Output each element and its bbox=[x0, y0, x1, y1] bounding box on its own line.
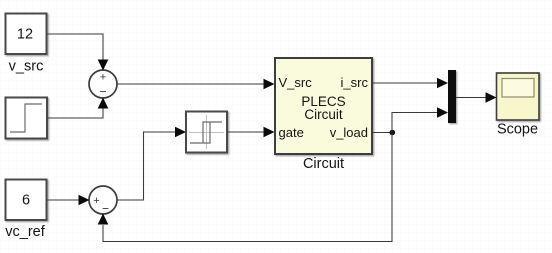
arrow into gate bbox=[264, 127, 275, 138]
svg-text:gate: gate bbox=[279, 125, 304, 140]
svg-text:v_src: v_src bbox=[9, 59, 44, 75]
svg-text:−: − bbox=[102, 202, 109, 216]
mux M1 bbox=[448, 70, 456, 123]
wire i_src to mux bbox=[372, 82, 437, 84]
sum block S2 bbox=[89, 186, 117, 216]
wire 6 to S2 bbox=[48, 199, 80, 201]
arrow into S1 bottom bbox=[98, 98, 109, 109]
wire relay to gate bbox=[227, 131, 264, 133]
arrow into mux input 1 bbox=[437, 78, 448, 89]
svg-text:12: 12 bbox=[17, 27, 33, 43]
wire feedback v_load to S2 bbox=[103, 133, 392, 242]
wire 12 to S1 bbox=[48, 34, 104, 60]
arrow into S2 bottom bbox=[98, 214, 109, 225]
wire node to mux bbox=[392, 113, 437, 133]
wire S1 to V_src bbox=[117, 83, 265, 85]
svg-text:+: + bbox=[93, 195, 99, 207]
node junction bbox=[390, 130, 396, 136]
arrow into relay bbox=[175, 127, 186, 138]
svg-text:Scope: Scope bbox=[497, 122, 538, 138]
sum block S1 bbox=[89, 70, 117, 99]
svg-text:V_src: V_src bbox=[279, 75, 313, 90]
arrow into mux input 2 bbox=[437, 107, 448, 118]
arrow into scope bbox=[486, 92, 497, 103]
arrow into S2 left bbox=[79, 195, 90, 206]
relay block bbox=[186, 112, 227, 153]
svg-text:v_load: v_load bbox=[330, 125, 368, 140]
svg-text:i_src: i_src bbox=[341, 75, 369, 90]
svg-text:−: − bbox=[99, 85, 106, 99]
wire mux to scope bbox=[456, 97, 486, 99]
arrow into V_src bbox=[264, 79, 275, 90]
wire step to S1 bbox=[48, 108, 103, 118]
svg-text:Circuit: Circuit bbox=[303, 156, 344, 172]
step block bbox=[6, 98, 48, 139]
wire S2 to relay bbox=[117, 132, 176, 200]
svg-text:Circuit: Circuit bbox=[304, 107, 343, 122]
wire v_load to node bbox=[372, 132, 392, 134]
svg-text:6: 6 bbox=[22, 193, 30, 209]
arrow into S1 top bbox=[98, 60, 109, 71]
svg-text:+: + bbox=[100, 72, 106, 84]
scope block bbox=[497, 73, 540, 120]
svg-text:vc_ref: vc_ref bbox=[5, 224, 45, 240]
constant block "12" bbox=[6, 14, 47, 55]
PLECS Circuit subsystem U1 bbox=[275, 58, 372, 154]
constant block "6" bbox=[6, 180, 47, 221]
